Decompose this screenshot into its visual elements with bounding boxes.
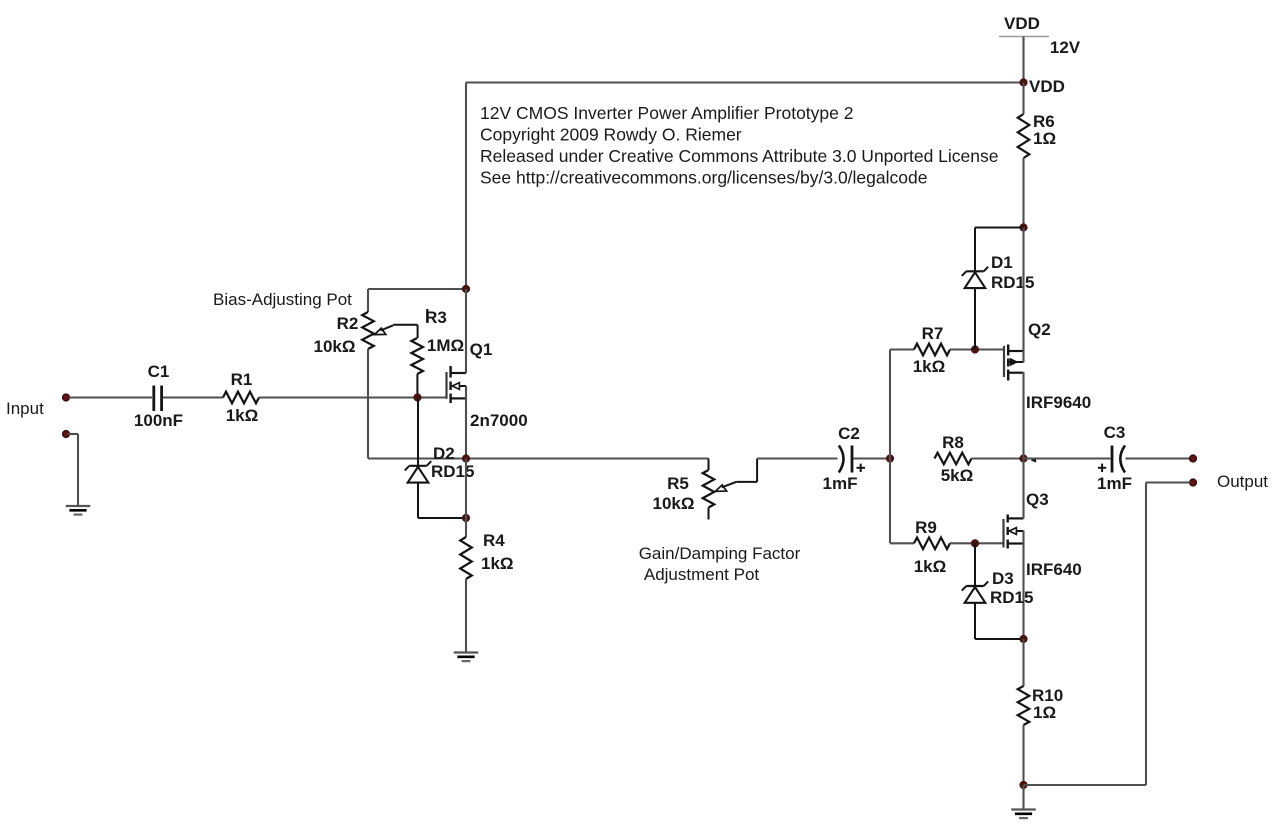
node output junction xyxy=(1019,454,1027,462)
D1 value label RD15 xyxy=(991,273,1034,292)
svg-text:1MΩ: 1MΩ xyxy=(427,336,464,355)
svg-text:1kΩ: 1kΩ xyxy=(481,554,514,573)
node Q3 gate junction xyxy=(971,539,979,547)
wire R7 to Q2 gate xyxy=(950,348,1004,350)
wire Q2 drain rail xyxy=(1022,372,1024,459)
svg-text:1kΩ: 1kΩ xyxy=(914,557,947,576)
svg-text:R7: R7 xyxy=(922,324,944,343)
R7 value label 1k&#937; xyxy=(913,357,946,376)
resistor R8 xyxy=(935,453,972,465)
wire input return to ground xyxy=(68,434,78,506)
node Q2 source junction xyxy=(1019,223,1027,231)
resistor R9 xyxy=(914,538,950,550)
wire D2 cathode xyxy=(417,398,419,467)
VDD net label xyxy=(1029,77,1065,96)
R3 value label 1M&#937; xyxy=(427,336,464,355)
resistor R4 xyxy=(460,537,472,579)
wire node to R7 xyxy=(890,348,914,350)
svg-text:R1: R1 xyxy=(231,370,253,389)
C2 value label 1mF xyxy=(823,474,858,493)
C1 value label 100nF xyxy=(134,411,183,430)
resistor R7 xyxy=(914,344,950,356)
svg-text:R4: R4 xyxy=(483,531,505,550)
R6 value label 1&#937; xyxy=(1033,129,1056,148)
VDD supply label xyxy=(1004,14,1040,33)
svg-text:Bias-Adjusting Pot: Bias-Adjusting Pot xyxy=(213,290,352,309)
wire D1 bottom xyxy=(974,288,976,349)
wire R2 top xyxy=(368,289,466,312)
node C2 junction xyxy=(886,454,894,462)
wire node to C3 xyxy=(1024,457,1111,459)
wire Q2 source rail xyxy=(1022,228,1024,363)
wire R6 to Q2 xyxy=(1022,158,1024,228)
R4 ref label xyxy=(483,531,505,550)
node R4 top junction xyxy=(462,514,470,522)
zener diode D2 xyxy=(405,461,431,482)
node VDD junction xyxy=(1019,78,1027,86)
title line 4 xyxy=(480,168,927,188)
capacitor C3 xyxy=(1098,446,1125,473)
svg-text:R5: R5 xyxy=(667,474,689,493)
svg-text:Output: Output xyxy=(1217,472,1268,491)
D1 ref label xyxy=(991,253,1013,272)
svg-text:Q2: Q2 xyxy=(1028,320,1051,339)
output label xyxy=(1217,472,1268,491)
wire D1 top xyxy=(975,228,1024,272)
svg-text:1Ω: 1Ω xyxy=(1033,129,1056,148)
R1 ref label xyxy=(231,370,253,389)
capacitor C1 xyxy=(154,386,162,412)
resistor R10 xyxy=(1018,686,1030,725)
bias-adjusting pot caption xyxy=(213,290,352,309)
input return terminal node xyxy=(63,431,70,438)
wire output return xyxy=(1146,483,1190,786)
C1 ref label xyxy=(148,362,170,381)
transistor Q1 2n7000 xyxy=(447,366,467,403)
node R2 top junction xyxy=(462,285,470,293)
title line 1 xyxy=(480,103,853,123)
C3 value label 1mF xyxy=(1097,474,1132,493)
wire ground stub xyxy=(1022,785,1024,810)
svg-text:RD15: RD15 xyxy=(991,273,1034,292)
svg-text:Gain/Damping Factor: Gain/Damping Factor xyxy=(639,544,801,563)
wire VDD bar down xyxy=(1022,37,1024,83)
Q3 ref label xyxy=(1026,490,1049,509)
wire R3 bottom xyxy=(416,374,418,398)
wire R1 to Q1 gate xyxy=(259,396,447,398)
svg-text:R9: R9 xyxy=(915,518,937,537)
net flag artifact xyxy=(1031,457,1037,462)
svg-text:R2: R2 xyxy=(337,314,359,333)
wire D3 top xyxy=(974,543,976,586)
wire top rail xyxy=(466,81,1024,83)
wire C1 to R1 xyxy=(163,396,224,398)
zener diode D1 xyxy=(962,267,988,288)
resistor R1 xyxy=(223,392,259,404)
wire R9 to Q3 gate xyxy=(950,542,1004,544)
svg-text:Adjustment Pot: Adjustment Pot xyxy=(644,565,760,584)
svg-text:C1: C1 xyxy=(148,362,170,381)
svg-text:D1: D1 xyxy=(991,253,1013,272)
input terminal node xyxy=(63,394,70,401)
R10 ref label xyxy=(1032,686,1063,705)
title line 3 xyxy=(480,146,998,166)
R6 ref label xyxy=(1033,112,1055,131)
Q1 value label 2n7000 xyxy=(470,411,528,430)
svg-text:C3: C3 xyxy=(1104,423,1126,442)
svg-text:Q3: Q3 xyxy=(1026,490,1049,509)
svg-text:Input: Input xyxy=(6,399,44,418)
wire Q3 to R10 xyxy=(1022,639,1024,686)
output terminal node xyxy=(1190,455,1197,462)
svg-text:2n7000: 2n7000 xyxy=(470,411,528,430)
R3 ref label xyxy=(425,308,447,327)
wire R8 right xyxy=(972,457,1024,459)
ground R4 xyxy=(454,653,479,662)
Q3 value label IRF640 xyxy=(1026,560,1082,579)
C3 ref label xyxy=(1104,423,1126,442)
wire left gate rail xyxy=(889,350,891,544)
node Q3 source junction xyxy=(1019,635,1027,643)
wire Q1 source rail xyxy=(465,386,467,459)
svg-text:Released under Creative Common: Released under Creative Commons Attribut… xyxy=(480,146,998,166)
R8 ref label xyxy=(942,433,964,452)
R10 value label 1&#937; xyxy=(1033,703,1056,722)
wire D3 bottom xyxy=(975,603,1024,639)
svg-text:1kΩ: 1kΩ xyxy=(226,406,259,425)
R9 ref label xyxy=(915,518,937,537)
svg-text:D3: D3 xyxy=(992,569,1014,588)
D2 value label RD15 xyxy=(431,462,474,481)
wire VDD to R6 xyxy=(1022,83,1024,115)
Q2 ref label xyxy=(1028,320,1051,339)
svg-text:12V: 12V xyxy=(1050,38,1081,57)
svg-text:IRF9640: IRF9640 xyxy=(1026,393,1091,412)
R7 ref label xyxy=(922,324,944,343)
svg-text:R8: R8 xyxy=(942,433,964,452)
ground bottom xyxy=(1011,810,1036,819)
wire mid to R4 xyxy=(465,459,467,538)
svg-text:RD15: RD15 xyxy=(990,588,1033,607)
title line 2 xyxy=(480,125,742,145)
node mid junction xyxy=(462,454,470,462)
wire Q3 drain rail xyxy=(1022,459,1024,519)
R2 ref label xyxy=(337,314,359,333)
wire D2 anode xyxy=(418,483,466,518)
zener diode D3 xyxy=(962,581,988,602)
ground input xyxy=(66,506,91,515)
transistor Q3 IRF640 xyxy=(1004,515,1024,549)
R9 value label 1k&#937; xyxy=(914,557,947,576)
R8 value label 5k&#937; xyxy=(941,466,974,485)
transistor Q2 IRF9640 xyxy=(1004,345,1024,381)
R4 value label 1k&#937; xyxy=(481,554,514,573)
svg-text:100nF: 100nF xyxy=(134,411,183,430)
wire input to C1 xyxy=(69,396,152,398)
R5 value label 10k&#937; xyxy=(653,494,695,513)
D3 ref label xyxy=(992,569,1014,588)
svg-text:IRF640: IRF640 xyxy=(1026,560,1082,579)
node gate junction xyxy=(413,393,421,401)
D2 ref label xyxy=(433,444,455,463)
input label xyxy=(6,399,44,418)
svg-text:VDD: VDD xyxy=(1029,77,1065,96)
Q1 ref label xyxy=(470,340,493,359)
wire Q3 source rail xyxy=(1022,531,1024,640)
potentiometer R5 xyxy=(703,459,715,520)
R2 wiper arrow xyxy=(374,325,417,338)
wire node to R9 xyxy=(890,542,914,544)
wire R2 bottom xyxy=(368,349,709,459)
R5 wiper arrow xyxy=(715,459,757,492)
gain caption line 2 xyxy=(644,565,760,584)
resistor R6 xyxy=(1018,114,1030,158)
Q2 value label IRF9640 xyxy=(1026,393,1091,412)
D3 value label RD15 xyxy=(990,588,1033,607)
svg-text:C2: C2 xyxy=(838,424,860,443)
svg-text:1kΩ: 1kΩ xyxy=(913,357,946,376)
svg-text:1Ω: 1Ω xyxy=(1033,703,1056,722)
wire R4 to ground xyxy=(465,579,467,653)
gain caption line 1 xyxy=(639,544,801,563)
potentiometer R2 xyxy=(362,312,374,349)
node Q2 gate junction xyxy=(971,345,979,353)
svg-text:VDD: VDD xyxy=(1004,14,1040,33)
svg-text:10kΩ: 10kΩ xyxy=(653,494,695,513)
capacitor C2 xyxy=(839,446,865,473)
wire C2 to node xyxy=(853,457,890,459)
wire R5 to C2 xyxy=(757,457,837,459)
wire ground to output return xyxy=(1024,784,1147,786)
svg-text:Copyright 2009 Rowdy O. Riemer: Copyright 2009 Rowdy O. Riemer xyxy=(480,125,742,145)
resistor R3 xyxy=(411,338,423,374)
svg-text:D2: D2 xyxy=(433,444,455,463)
C2 ref label xyxy=(838,424,860,443)
R2 value label 10k&#937; xyxy=(314,337,356,356)
svg-text:12V CMOS Inverter Power Amplif: 12V CMOS Inverter Power Amplifier Protot… xyxy=(480,103,853,123)
wire C3 to output xyxy=(1126,457,1191,459)
svg-text:1mF: 1mF xyxy=(823,474,858,493)
svg-text:RD15: RD15 xyxy=(431,462,474,481)
wire Q1 drain rail xyxy=(465,289,467,373)
svg-text:1mF: 1mF xyxy=(1097,474,1132,493)
svg-text:Q1: Q1 xyxy=(470,340,493,359)
output return terminal node xyxy=(1190,479,1197,486)
R1 value label 1k&#937; xyxy=(226,406,259,425)
node ground junction xyxy=(1019,781,1027,789)
wire R10 to ground xyxy=(1022,725,1024,785)
wire left rail down xyxy=(465,83,467,290)
svg-text:10kΩ: 10kΩ xyxy=(314,337,356,356)
R5 ref label xyxy=(667,474,689,493)
svg-text:5kΩ: 5kΩ xyxy=(941,466,974,485)
VDD supply bar xyxy=(999,36,1049,38)
svg-text:See http://creativecommons.org: See http://creativecommons.org/licenses/… xyxy=(480,168,927,188)
12V value label xyxy=(1050,38,1081,57)
